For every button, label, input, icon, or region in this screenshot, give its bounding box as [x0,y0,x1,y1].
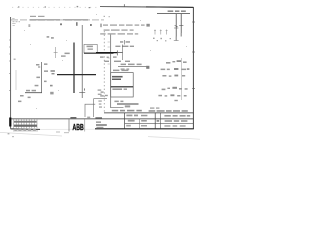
label title block texts row3 [126,125,185,127]
scan artifact speckle [24,14,187,109]
title block cell divider V3 [159,113,161,129]
title block cell divider V2 [154,113,156,129]
title block mid line full [11,118,193,120]
wire L1 supply rail [11,18,104,25]
contact S1 [174,25,178,28]
label title block texts row1 [126,115,190,117]
wire X1 bottom [25,92,42,94]
label junction pins [98,89,102,107]
wire drop A [175,14,177,41]
label F2 dots [153,38,171,42]
top border solid right half [100,6,193,9]
left border dark blob [9,118,11,127]
wire dashed panel boundary [103,31,105,113]
wire meter riser [180,58,182,100]
bottom border right segment [95,128,194,130]
label terminal header row 2 [104,29,134,30]
label sheet ref top-left [47,36,50,38]
scan artifact dots [8,131,69,137]
bottom border left segment [11,128,41,131]
title block cell divider V4 [139,119,141,129]
border frame [9,4,195,129]
svg-text:ABB: ABB [73,123,84,132]
label terminal header row 3 [100,33,138,34]
right border [192,7,194,129]
title block [11,113,193,132]
title block top line [104,112,193,114]
top border (faint dotted left half) [12,6,100,8]
label title block texts row2 [128,120,188,122]
ABB cell right edge [84,119,86,131]
fuse group F2 [154,30,168,35]
transformer T1 box [84,44,97,53]
meter cluster P1 labels [161,60,190,77]
wire output bus [117,103,139,105]
label leader text [125,105,130,107]
scan artifact diagonal left [0,132,62,136]
scan artifact diagonal right [148,137,200,140]
meter cluster P2 labels [158,87,187,101]
contact S2 [179,25,183,27]
wire incoming feeder top right [157,10,190,13]
top border tick [123,4,125,7]
wire heavy control feed [96,52,123,54]
revision table underline [13,130,38,132]
node marker [14,59,16,60]
terminal strip X1 vertical [35,62,48,93]
label F1 [51,37,54,39]
label K1 coil text [50,70,55,94]
arrester E1 [174,33,181,41]
cable bus W1 [73,43,75,94]
wire terminal row line [118,64,149,70]
label rail text [18,6,90,17]
relay K2 tag [120,40,130,45]
wire title leader [111,107,124,109]
wire control riser [108,34,111,108]
label terminal header row 1 [100,24,149,28]
contact K1 on wire [79,88,85,92]
node stub [38,66,40,68]
label cage clamp text right of ABB [70,117,106,129]
node dots mid top [104,16,110,17]
disconnect Q1 [54,47,58,58]
revision table below text [14,129,35,131]
PLC module U1 box [111,70,134,97]
right border ticks [192,22,195,89]
wire drop B [180,14,182,37]
node tick [116,50,118,55]
label row under feed [100,56,117,57]
junction box corner [85,99,107,117]
revision table text row1 [14,121,37,123]
title block cell divider V1 [124,113,126,129]
title block row line [125,123,194,125]
wire to fuse F1 [81,25,83,98]
label U1 header text [113,70,119,72]
left border [10,17,12,129]
label feeder text [168,10,174,12]
revision table text row2 [14,125,37,127]
revision table columns [14,119,37,128]
label row y61 [104,61,130,62]
label X1 cable text [18,90,36,102]
wire T1 output [84,52,114,54]
label U1 inner row [112,88,122,90]
label U1 type block [112,76,123,80]
label doc number above title block [112,107,188,111]
wire main cross feeder [57,74,96,76]
wire ground riser [15,70,17,90]
node tag on rail [28,22,91,27]
label left pin numbers [100,91,108,96]
left ruler ticks [9,40,11,91]
ABB cell left edge [68,119,70,131]
bottom border faded middle [40,128,95,130]
label mid row text [115,46,134,47]
contact K2 [122,45,124,61]
label output text [114,101,123,103]
label T1 text [61,53,70,57]
